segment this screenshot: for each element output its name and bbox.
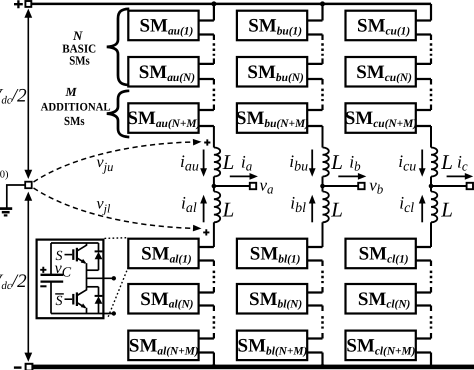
- dotted zoom line lower: [108, 267, 129, 319]
- node: phase a output junction: [212, 184, 217, 189]
- ground: [0, 209, 12, 216]
- wire: dotted SM chain continuation: [430, 261, 432, 267]
- wire: stubs of SM_au(N): [199, 64, 214, 79]
- wire: stubs of SM_bu(N): [307, 64, 322, 79]
- dashed arrow v_jl: [34, 188, 202, 231]
- node: negative DC terminal square: [26, 364, 33, 370]
- wire: stubs of SM_cl(1): [416, 247, 431, 261]
- label + of capacitor: [40, 267, 46, 273]
- wire: SM_al(N+M) to bottom rail: [213, 353, 215, 367]
- svg-text:Vdc/2: Vdc/2: [0, 86, 27, 107]
- svg-text:vb: vb: [369, 175, 384, 196]
- wire: inductor to junction: [430, 177, 432, 187]
- wire: dotted SM chain continuation: [430, 306, 432, 312]
- submodule SM_bl(N): [237, 284, 307, 314]
- node: phase c output junction: [429, 184, 434, 189]
- dashed arrow v_ju: [34, 139, 202, 182]
- wire: upper arm to inductor: [322, 126, 324, 148]
- svg-text:S: S: [56, 294, 63, 309]
- inductor L lower arm b: [322, 186, 324, 192]
- wire: stubs of SM_al(N): [199, 293, 214, 306]
- wire: rail to SM_au(1): [213, 4, 215, 21]
- wire: SM internal top: [51, 242, 99, 244]
- transistor S (upper IGBT): [56, 243, 87, 287]
- submodule SM_cl(N+M): [346, 331, 416, 361]
- svg-text:L: L: [440, 150, 453, 174]
- wire: stubs of SM_au(N+M): [199, 110, 214, 126]
- wire: rail to SM_bu(1): [321, 4, 323, 21]
- wire: dotted SM chain continuation: [213, 261, 215, 267]
- wire: inductor to junction: [322, 177, 324, 187]
- wire: dotted SM chain continuation: [213, 306, 215, 312]
- svg-text:va: va: [260, 175, 275, 196]
- svg-text:L: L: [440, 198, 453, 222]
- wire: SM_cl(N+M) to bottom rail: [430, 353, 432, 367]
- wire: stubs of SM_bl(N): [307, 293, 322, 306]
- wire: phase c output: [431, 185, 467, 187]
- svg-text:L: L: [222, 150, 235, 174]
- wire: phase a output: [214, 185, 250, 187]
- submodule detail box: [37, 240, 104, 319]
- node junction on top rail phase a: [211, 1, 216, 6]
- submodule SM_au(N+M): [127, 103, 200, 133]
- wire: dotted SM chain continuation: [213, 79, 215, 85]
- minus sign of DC link: [14, 366, 22, 368]
- wire: stubs of SM_bl(N+M): [307, 339, 322, 353]
- current arrow i_al (up): [200, 195, 207, 223]
- diode D1: [95, 243, 103, 270]
- node: phase a AC terminal square: [250, 183, 256, 189]
- wire: SM_bl(N+M) to bottom rail: [321, 353, 323, 367]
- submodule SM_au(1): [128, 11, 198, 41]
- submodule SM_cu(N): [346, 57, 416, 87]
- plus sign of DC link: [14, 0, 23, 8]
- wire: dotted SM chain continuation: [321, 35, 323, 41]
- wire: stubs of SM_au(1): [199, 21, 214, 35]
- wire: dotted SM chain continuation: [430, 35, 432, 41]
- inductor L upper arm c: [431, 148, 437, 177]
- brace for N basic SMs: [107, 9, 130, 85]
- svg-text:ia: ia: [241, 152, 253, 174]
- brace for M additional SMs: [107, 91, 130, 137]
- current arrow i_cl (up): [419, 195, 426, 223]
- current arrow i_c (right): [447, 173, 474, 180]
- submodule SM_au(N): [128, 57, 198, 87]
- svg-text:L: L: [330, 150, 343, 174]
- wire: stubs of SM_bu(N+M): [307, 110, 322, 126]
- submodule SM_al(N+M): [128, 331, 199, 361]
- transistor S-bar (lower IGBT): [55, 287, 86, 314]
- current arrow i_au (down): [200, 150, 207, 177]
- capacitor C: [41, 243, 64, 314]
- svg-text:icl: icl: [399, 193, 414, 216]
- submodule SM_cl(1): [346, 239, 416, 269]
- wire: dotted SM chain continuation: [321, 261, 323, 267]
- current arrow i_a (right): [230, 173, 258, 180]
- svg-text:SMs: SMs: [69, 54, 90, 68]
- node: phase c AC terminal square: [467, 183, 473, 189]
- svg-text:SMs: SMs: [64, 114, 85, 128]
- wire: SM output mid: [87, 277, 114, 279]
- wire: stubs of SM_bl(1): [307, 247, 322, 261]
- inductor L lower arm c: [430, 186, 432, 192]
- wire: stubs of SM_cu(1): [416, 21, 431, 35]
- submodule SM_bu(N): [237, 57, 307, 87]
- submodule SM_cl(N): [346, 284, 416, 314]
- node: DC midpoint square (0): [25, 182, 32, 189]
- svg-text:ic: ic: [457, 152, 468, 174]
- node: SM terminal upper: [112, 276, 116, 280]
- submodule SM_bu(1): [237, 11, 307, 41]
- wire: SM internal bottom (to lower terminal): [51, 313, 114, 315]
- wire: dotted SM chain continuation: [213, 35, 215, 41]
- current arrow i_cu (down): [419, 150, 426, 177]
- submodule SM_cu(N+M): [345, 103, 418, 133]
- submodule SM_bu(N+M): [236, 103, 309, 133]
- node: phase b AC terminal square: [358, 183, 364, 189]
- svg-text:ADDITIONAL: ADDITIONAL: [41, 101, 111, 113]
- svg-text:L: L: [330, 198, 343, 222]
- node: phase b output junction: [320, 184, 325, 189]
- svg-text:M: M: [64, 85, 77, 99]
- wire: stubs of SM_cl(N): [416, 293, 431, 306]
- submodule SM_cu(1): [346, 11, 416, 41]
- inductor L lower arm a: [213, 186, 215, 192]
- node junction on top rail phase b: [320, 1, 325, 6]
- submodule SM_bl(1): [237, 239, 307, 269]
- wire: stubs of SM_cl(N+M): [416, 339, 431, 353]
- wire: top DC rail: [31, 3, 431, 6]
- label minus of capacitor: [40, 285, 46, 287]
- node junction on bottom rail phase a: [211, 364, 216, 369]
- dimension arrow Vdc/2 upper: [24, 9, 32, 179]
- plus polarity upper arm a: [204, 139, 210, 145]
- svg-text:icu: icu: [398, 151, 416, 174]
- plus polarity lower arm a: [203, 229, 209, 235]
- submodule SM_al(N): [128, 284, 198, 314]
- inductor L upper arm a: [214, 148, 220, 177]
- wire: stubs of SM_al(N+M): [199, 339, 214, 353]
- node: SM terminal lower: [112, 311, 116, 315]
- dimension arrow Vdc/2 lower: [24, 192, 32, 362]
- svg-text:ial: ial: [181, 193, 197, 216]
- wire: upper arm to inductor: [430, 126, 432, 148]
- current arrow i_b (right): [338, 173, 366, 180]
- wire: inductor to SM_cl(1): [430, 222, 432, 247]
- svg-text:vjl: vjl: [97, 196, 111, 216]
- wire: dotted SM chain continuation: [321, 79, 323, 85]
- wire: stubs of SM_cu(N+M): [416, 110, 431, 126]
- submodule SM_al(1): [128, 239, 198, 269]
- wire: inductor to SM_bl(1): [322, 222, 324, 247]
- wire: stubs of SM_bu(1): [307, 21, 322, 35]
- wire: dotted SM chain continuation: [321, 306, 323, 312]
- submodule SM_bl(N+M): [237, 331, 308, 361]
- wire: inductor to junction: [213, 177, 215, 187]
- svg-text:ibu: ibu: [289, 151, 308, 174]
- wire: bottom DC rail: [32, 365, 474, 370]
- svg-text:iau: iau: [180, 151, 199, 174]
- diode D2: [95, 287, 103, 314]
- svg-text:ib: ib: [349, 152, 361, 174]
- node: positive DC terminal square: [25, 1, 31, 7]
- wire: stubs of SM_al(1): [199, 247, 214, 261]
- wire: rail corner down to SM_cu(1): [430, 4, 432, 21]
- inductor L upper arm b: [323, 148, 329, 177]
- current arrow i_bl (up): [309, 195, 316, 223]
- svg-text:Vdc/2: Vdc/2: [0, 271, 27, 292]
- wire: dotted SM chain continuation: [430, 79, 432, 85]
- dotted zoom line upper: [105, 237, 129, 240]
- svg-text:ibl: ibl: [290, 193, 306, 216]
- current arrow i_bu (down): [309, 150, 316, 177]
- svg-text:vju: vju: [97, 154, 114, 174]
- wire: midpoint to ground: [7, 185, 25, 208]
- wire: lower mid connector: [87, 286, 99, 288]
- wire: inductor to SM_al(1): [213, 222, 215, 247]
- wire: upper mid connector: [87, 269, 99, 271]
- svg-text:(0): (0): [0, 170, 9, 181]
- svg-text:L: L: [222, 198, 235, 222]
- wire: upper arm to inductor: [213, 126, 215, 148]
- wire: phase b output: [323, 185, 359, 187]
- svg-text:S: S: [56, 249, 63, 264]
- node junction on bottom rail phase b: [320, 364, 325, 369]
- wire: stubs of SM_cu(N): [416, 64, 431, 79]
